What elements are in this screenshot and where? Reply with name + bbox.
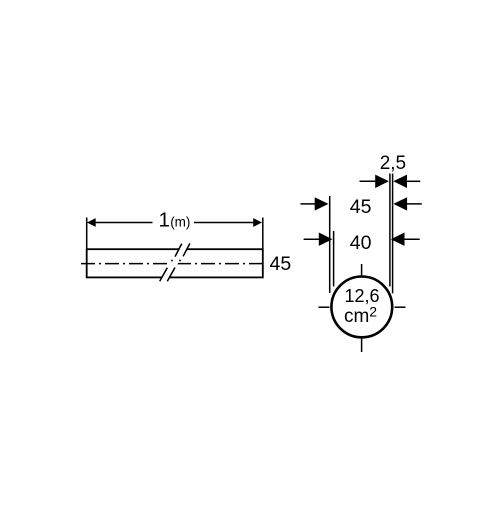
dimension 40 arrows bbox=[304, 233, 420, 246]
svg-text:2,5: 2,5 bbox=[380, 153, 406, 174]
centre tick bottom bbox=[361, 338, 363, 353]
svg-text:1: 1 bbox=[159, 209, 170, 232]
label 12,6 cm2 area bbox=[344, 286, 380, 327]
svg-text:45: 45 bbox=[350, 196, 372, 218]
dimension 1 (m) extension line right bbox=[262, 218, 264, 249]
dimension 1 (m) line and arrows bbox=[87, 218, 262, 227]
dimension 45 arrows bbox=[300, 197, 421, 210]
label 45 tube diameter bbox=[270, 253, 292, 275]
centre tick right bbox=[395, 306, 406, 308]
dimension 2,5 arrows bbox=[360, 175, 421, 188]
extension line outer right (45) bbox=[392, 174, 394, 294]
tube centerline bbox=[81, 263, 265, 265]
extension line outer left (45) bbox=[329, 196, 331, 293]
extension line inner left (40) bbox=[333, 231, 335, 286]
label 40 inner diameter bbox=[350, 232, 372, 254]
svg-text:cm: cm bbox=[344, 306, 369, 327]
label 2,5 bbox=[380, 153, 406, 174]
svg-text:45: 45 bbox=[270, 253, 292, 275]
extension line inner right (40) bbox=[389, 174, 391, 287]
svg-text:40: 40 bbox=[350, 232, 372, 254]
centre tick top bbox=[361, 264, 363, 277]
centre tick left bbox=[319, 306, 330, 308]
break mark bbox=[160, 243, 190, 281]
tube body rectangle bbox=[87, 249, 263, 277]
cross-section circle bbox=[331, 277, 392, 338]
label 1 (m) bbox=[159, 209, 191, 232]
label 45 outer diameter bbox=[350, 196, 372, 218]
svg-text:2: 2 bbox=[369, 303, 377, 319]
svg-text:(m): (m) bbox=[170, 214, 190, 229]
dimension 1 (m) extension line left bbox=[86, 218, 88, 249]
